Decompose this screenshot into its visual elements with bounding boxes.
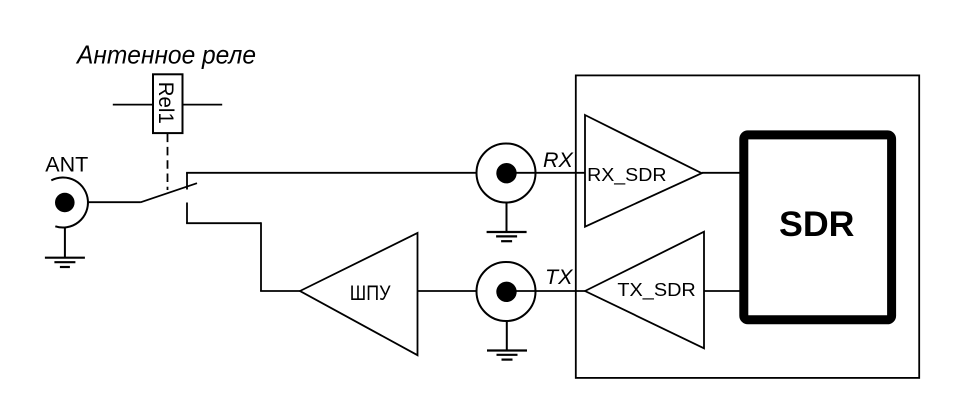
wire ШПУ input to TX connector	[418, 290, 477, 292]
ground (TX connector)	[487, 321, 527, 359]
svg-text:RX_SDR: RX_SDR	[587, 164, 666, 186]
ground (RX connector)	[487, 203, 527, 241]
wire relay Rel1 right terminal	[183, 104, 222, 106]
wire TX_SDR to SDR box	[704, 290, 740, 292]
SDR box (thick-bordered transceiver block)	[744, 135, 892, 320]
wire TX branch vertical segment	[260, 222, 262, 291]
wire switch to RX connector	[186, 172, 476, 174]
svg-text:TX_SDR: TX_SDR	[617, 279, 695, 301]
switch upper contact stub (RX side)	[186, 173, 188, 190]
svg-text:SDR: SDR	[779, 204, 855, 244]
wire RX_SDR to SDR box	[702, 172, 740, 174]
svg-text:RX: RX	[543, 148, 575, 172]
wire relay Rel1 left terminal	[113, 104, 153, 106]
wire to ШПУ amplifier output (apex)	[260, 290, 300, 292]
svg-text:Антенное реле: Антенное реле	[75, 39, 256, 69]
svg-text:ANT: ANT	[45, 152, 88, 176]
connector RX (coax jack)	[477, 144, 536, 203]
switch lower contact stub (TX side)	[186, 203, 188, 224]
wire ANT connector to switch pivot	[88, 201, 141, 203]
buffer amplifier TX_SDR (pointing left)	[585, 232, 704, 349]
amplifier ШПУ (wideband PA, pointing left)	[300, 233, 418, 355]
switch blade (antenna relay SPDT contact)	[141, 183, 198, 202]
buffer amplifier RX_SDR (pointing right)	[585, 115, 702, 227]
wire RX connector to RX_SDR input	[506, 172, 585, 174]
connector TX center pin	[496, 282, 516, 302]
connector ANT (coax jack, open left arc with center pin)	[51, 178, 88, 228]
ground (ANT connector)	[45, 228, 85, 268]
wire TX connector to TX_SDR output	[506, 290, 585, 292]
connector TX (coax jack)	[477, 262, 536, 321]
svg-text:ШПУ: ШПУ	[350, 282, 391, 305]
svg-text:TX: TX	[545, 265, 574, 289]
relay Rel1 (coil box with rotated label)	[153, 74, 183, 133]
enclosure box (SDR unit boundary)	[576, 75, 919, 378]
connector RX center pin	[496, 163, 516, 183]
svg-text:Rel1: Rel1	[154, 82, 178, 124]
wire TX branch horizontal segment	[186, 222, 261, 224]
dashed mechanical link from relay Rel1 to switch blade	[167, 134, 169, 190]
